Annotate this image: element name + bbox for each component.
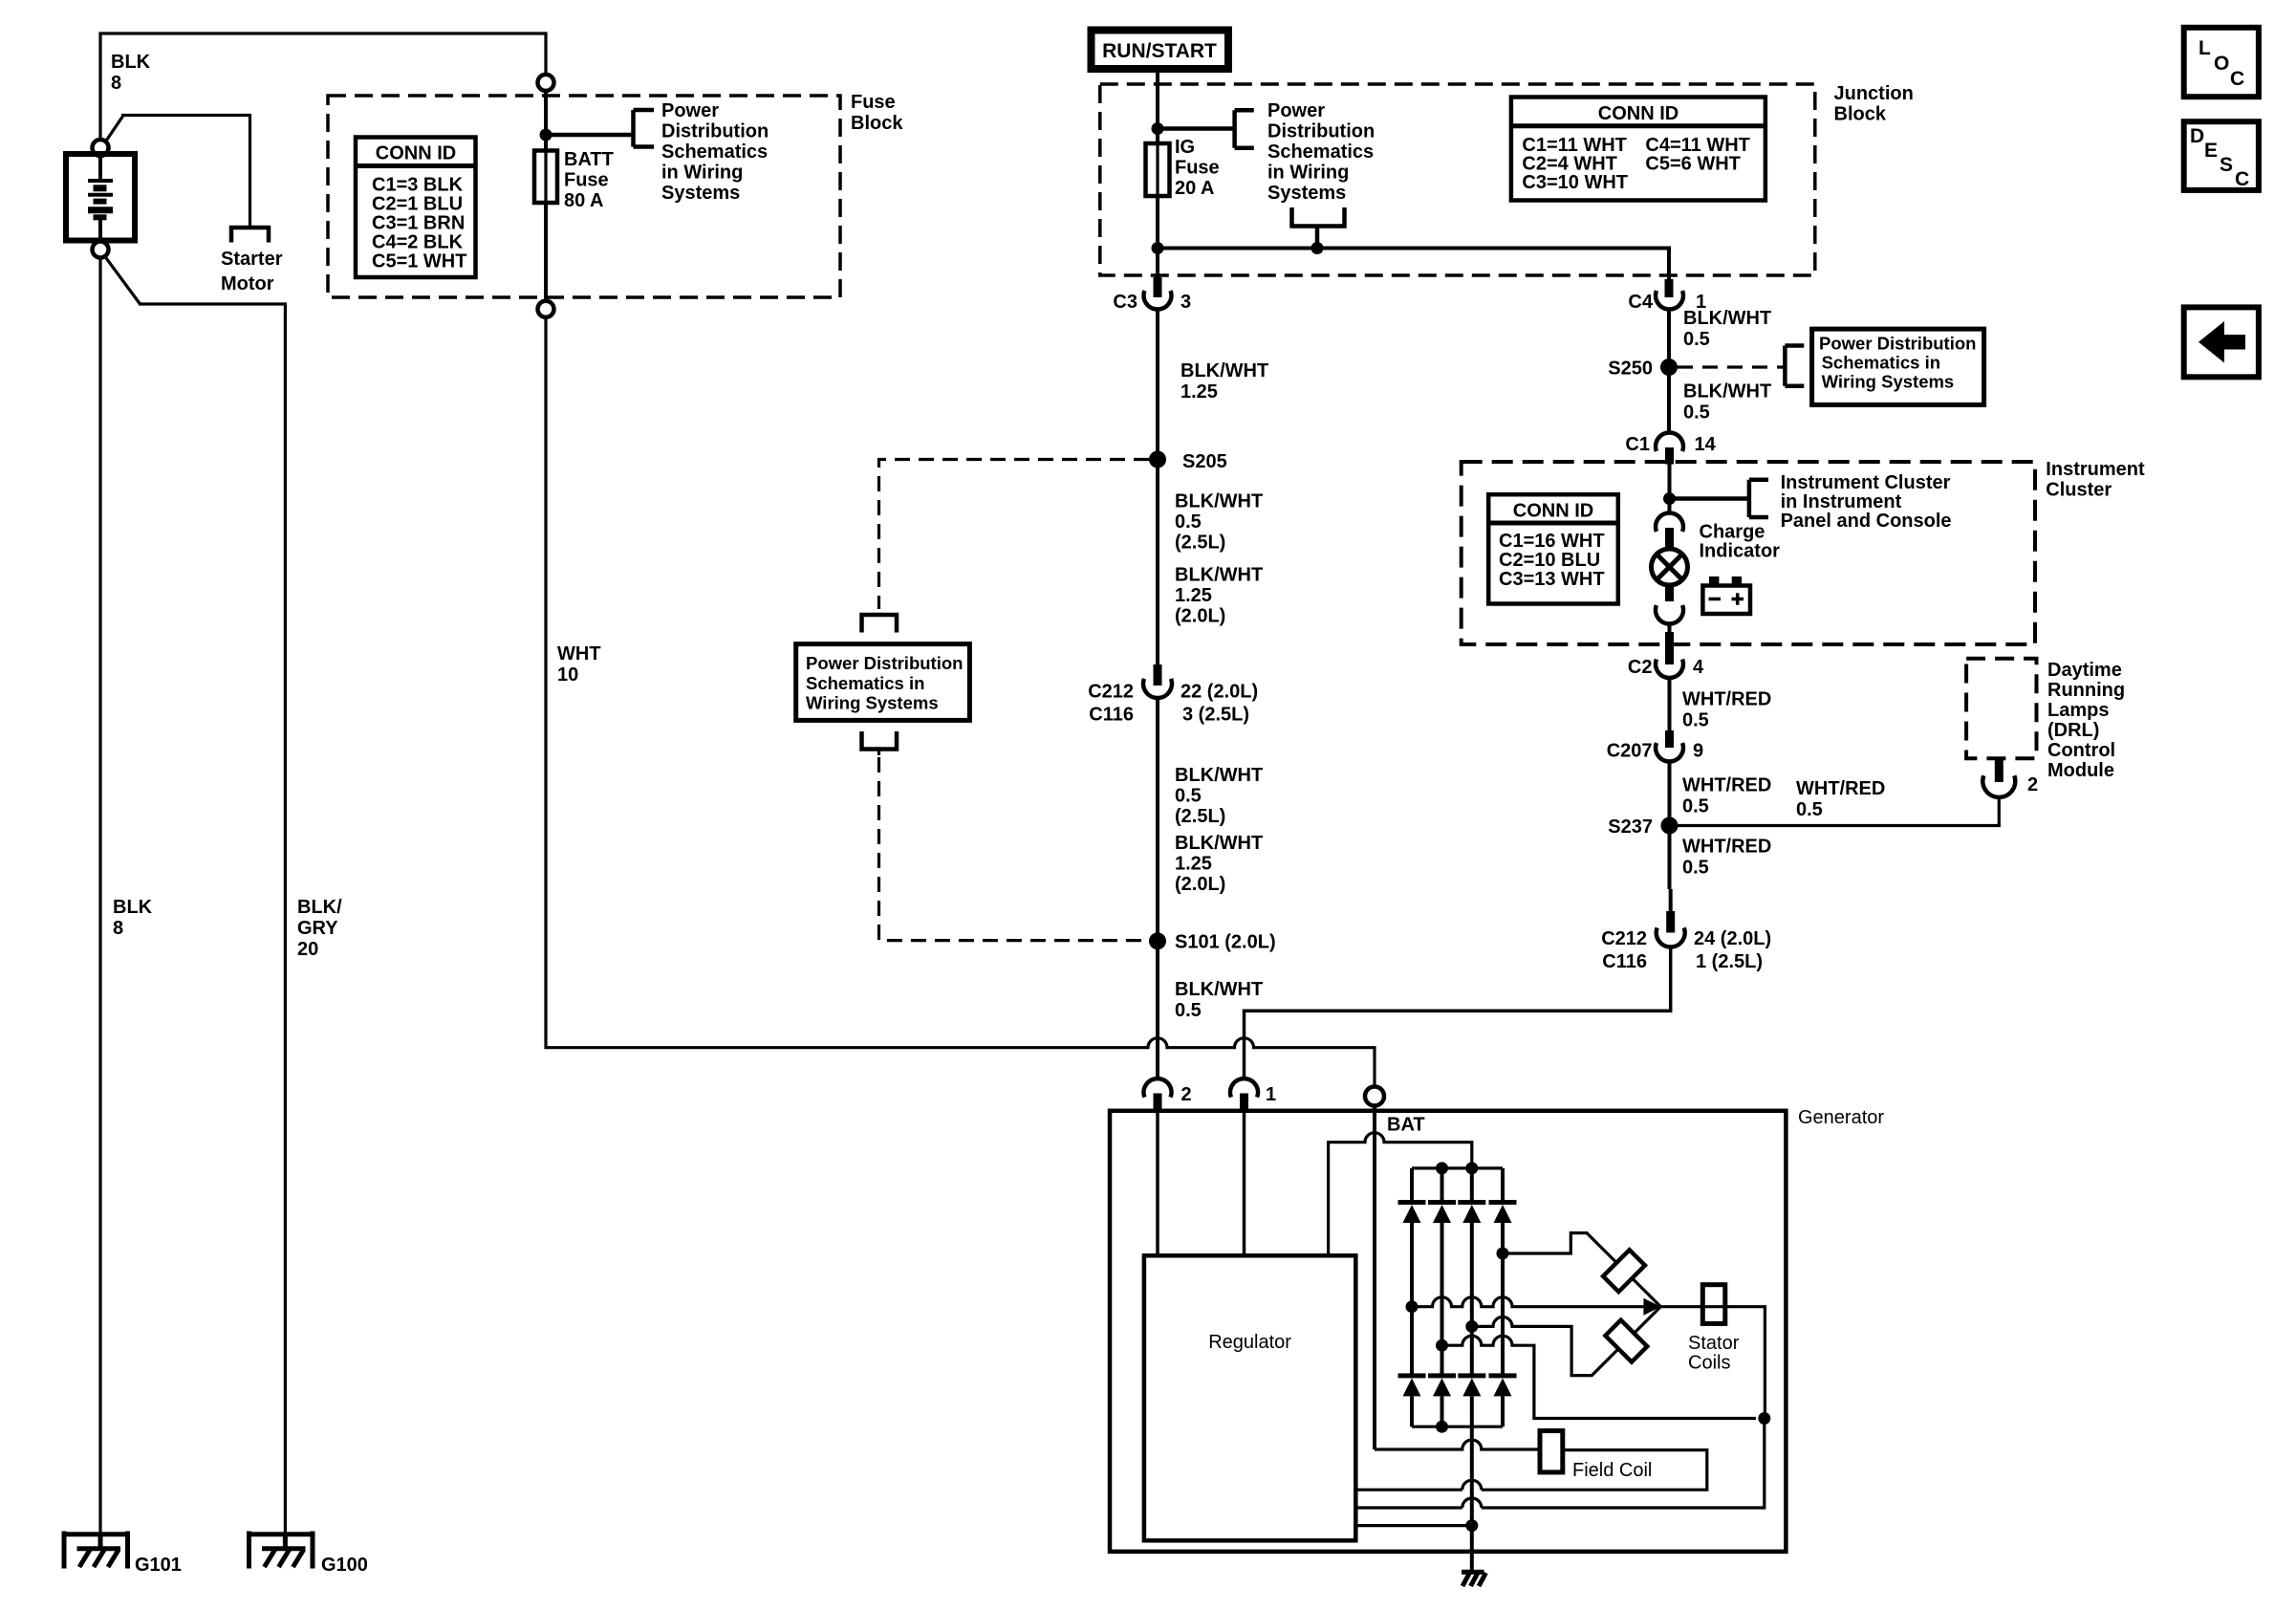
svg-text:Systems: Systems [1267, 183, 1346, 204]
wire: through fuse block [544, 91, 548, 301]
svg-text:C3: C3 [1113, 292, 1137, 313]
field coil loop and return (H2) to regulator with hop over c3 [1355, 1450, 1707, 1491]
svg-text:BLK/WHT: BLK/WHT [1683, 381, 1771, 403]
stator phase A wire (c1 to stator coil) with hops [1412, 1297, 1765, 1419]
LOC box [2184, 28, 2259, 97]
wire: C212 down to generator pin 2 [1156, 699, 1159, 1078]
svg-text:Systems: Systems [661, 183, 740, 204]
svg-text:BLK/WHT: BLK/WHT [1180, 360, 1268, 381]
wire: pin 1 to regulator [1243, 1111, 1246, 1256]
svg-text:Schematics: Schematics [661, 142, 768, 163]
svg-text:Starter: Starter [221, 249, 283, 270]
battery icon next to lamp [1702, 586, 1750, 615]
wire: C207 to S237 [1668, 762, 1672, 890]
wire: stator return down to regulator (H3) [1355, 1419, 1765, 1509]
svg-text:4: 4 [1693, 657, 1704, 678]
label: BLK/WHT 0.5 [1175, 979, 1263, 1021]
svg-text:3: 3 [1180, 292, 1191, 313]
svg-text:S: S [2220, 154, 2233, 176]
node: dot c2 phase C [1436, 1339, 1448, 1352]
svg-text:Wiring Systems: Wiring Systems [806, 693, 939, 713]
svg-text:C1=16 WHT: C1=16 WHT [1499, 531, 1605, 552]
upper winding branch from c4 [1503, 1233, 1660, 1307]
wire: pin 2 to regulator [1156, 1111, 1159, 1256]
svg-text:C1: C1 [1625, 434, 1650, 455]
svg-text:80 A: 80 A [564, 190, 604, 211]
svg-text:Wiring Systems: Wiring Systems [1822, 372, 1955, 392]
wire: RUN/START down through IG fuse [1156, 73, 1159, 279]
svg-text:Motor: Motor [221, 273, 274, 294]
svg-text:0.5: 0.5 [1682, 858, 1709, 879]
wire: WHT 10 long run down and across to generator BAT [546, 317, 1375, 1086]
svg-text:Indicator: Indicator [1700, 541, 1781, 562]
wire + pointer bracket to Power Distribution note [546, 110, 654, 147]
svg-text:22 (2.0L): 22 (2.0L) [1180, 682, 1258, 703]
charge indicator lamp: top connector [1656, 512, 1683, 532]
label: BLK/WHT 1.25 [1180, 360, 1268, 403]
node: stator return dot [1758, 1412, 1770, 1425]
svg-text:C5=6 WHT: C5=6 WHT [1645, 154, 1740, 175]
svg-text:14: 14 [1695, 434, 1717, 455]
wire: C212 down and across to generator pin 1 [1245, 947, 1671, 1078]
svg-text:1.25: 1.25 [1175, 585, 1212, 606]
svg-text:Schematics in: Schematics in [806, 673, 924, 693]
connector C212/C116 pin 24/1 [1669, 889, 1673, 911]
node: splice S237 [1661, 817, 1679, 835]
node: bus junction dot (pointer) [1311, 242, 1324, 254]
rectifier bottom bus [1412, 1426, 1503, 1428]
battery internal plates [88, 156, 113, 239]
node: dot c3 lower branch [1465, 1320, 1478, 1333]
dashed reference: S250 to Power Distribution box [1678, 365, 1785, 368]
stator coil symbol (right) [1702, 1285, 1725, 1324]
svg-text:0.5: 0.5 [1683, 403, 1710, 424]
wire: battery negative down to G101 [98, 258, 101, 1535]
node: dot c3 top bus [1465, 1162, 1478, 1174]
svg-text:BLK/WHT: BLK/WHT [1175, 491, 1263, 512]
starter motor stub symbol [231, 228, 269, 243]
diode D5-D8 (lower row): bars and arrows [1398, 1373, 1517, 1378]
wire: C1 into cluster [1668, 465, 1672, 515]
svg-text:0.5: 0.5 [1175, 1000, 1202, 1021]
RUN/START box [1092, 31, 1229, 70]
svg-text:Generator: Generator [1798, 1107, 1884, 1128]
svg-text:(DRL): (DRL) [2047, 720, 2099, 741]
CONN ID table (junction block) [1511, 98, 1765, 201]
svg-text:2: 2 [1181, 1084, 1192, 1105]
svg-text:S237: S237 [1608, 816, 1653, 838]
svg-text:C116: C116 [1602, 951, 1647, 972]
label: BLK 8 (top) [111, 52, 151, 94]
labels center column (2.5L/2.0L group above C212) [1175, 491, 1263, 627]
svg-text:(2.5L): (2.5L) [1175, 806, 1225, 827]
label: BLK/WHT 0.5 (above S250) [1683, 308, 1771, 350]
svg-text:BLK/WHT: BLK/WHT [1175, 765, 1263, 786]
svg-text:L: L [2199, 37, 2211, 59]
label: Starter Motor [221, 249, 283, 294]
svg-text:10: 10 [557, 664, 578, 686]
svg-text:C5=1 WHT: C5=1 WHT [372, 251, 466, 272]
CONN ID table (instrument cluster) [1488, 494, 1618, 603]
svg-text:Schematics: Schematics [1267, 142, 1374, 163]
svg-text:Power: Power [1267, 100, 1325, 121]
connector C3 pin 3 [1154, 277, 1162, 297]
svg-text:C207: C207 [1607, 741, 1653, 762]
svg-text:1.25: 1.25 [1180, 381, 1218, 403]
connector: generator pin 2 [1144, 1078, 1172, 1098]
svg-text:GRY: GRY [297, 918, 338, 939]
connector: DRL pin 2 [1995, 758, 2004, 782]
svg-text:2: 2 [2027, 774, 2038, 795]
svg-text:Cluster: Cluster [2046, 480, 2112, 501]
regulator ground pin (H4) to c3 [1355, 1524, 1472, 1527]
svg-text:(2.5L): (2.5L) [1175, 533, 1225, 554]
svg-text:C: C [2230, 68, 2244, 90]
svg-text:(2.0L): (2.0L) [1175, 606, 1225, 627]
DESC box [2184, 121, 2259, 190]
svg-text:20: 20 [297, 939, 318, 960]
svg-text:in Wiring: in Wiring [661, 163, 743, 184]
wire: battery positive to starter motor [105, 116, 250, 229]
node: dot c2 top bus [1436, 1162, 1448, 1174]
phase arrow junction [1643, 1298, 1660, 1316]
wire: c3 to generator internal ground [1470, 1426, 1474, 1572]
wire: BAT down to field coil feed [1373, 1106, 1376, 1450]
svg-text:in Instrument: in Instrument [1781, 491, 1902, 512]
node: dot c4 upper branch [1497, 1248, 1509, 1260]
dashed reference: note box down to S101 [879, 757, 1150, 941]
svg-text:Coils: Coils [1688, 1353, 1730, 1374]
labels below C212 [1175, 765, 1263, 895]
fuse F2: IG Fuse 20 A [1146, 143, 1170, 196]
node: dot c1 phase A [1406, 1300, 1419, 1313]
node: junction dot to pointer [540, 129, 552, 142]
wire: C3 down center column to C212 [1156, 311, 1159, 664]
node: ground junction dot [1465, 1519, 1478, 1532]
svg-text:20 A: 20 A [1175, 178, 1215, 199]
node: battery positive terminal circle [93, 140, 109, 156]
rectifier top bus [1412, 1166, 1503, 1169]
wire: junction block internal bus [1158, 249, 1669, 280]
node: BAT terminal circle [1365, 1087, 1384, 1106]
node: battery negative terminal circle [93, 242, 109, 258]
connector C212/C116 pin 22/3 [1154, 664, 1162, 686]
Power Distribution Schematics note box (left) [796, 644, 970, 721]
node: fuse block top connector circle [538, 75, 554, 91]
svg-text:WHT/RED: WHT/RED [1682, 775, 1771, 796]
svg-text:CONN ID: CONN ID [376, 143, 456, 164]
battery B1 box [66, 154, 135, 241]
svg-text:C4: C4 [1628, 292, 1653, 313]
pointer bracket up from bus [1292, 207, 1345, 249]
svg-text:E: E [2204, 140, 2218, 162]
svg-text:0.5: 0.5 [1683, 329, 1710, 350]
node: splice S205 [1149, 451, 1166, 468]
svg-text:C3=10 WHT: C3=10 WHT [1522, 172, 1628, 193]
svg-text:BLK/WHT: BLK/WHT [1175, 833, 1263, 854]
svg-text:RUN/START: RUN/START [1102, 40, 1217, 62]
svg-text:3 (2.5L): 3 (2.5L) [1182, 705, 1249, 726]
svg-text:WHT: WHT [557, 643, 601, 664]
node: splice S101 [1149, 932, 1166, 949]
svg-text:WHT/RED: WHT/RED [1682, 689, 1771, 710]
ground (generator internal) [1462, 1572, 1486, 1586]
CONN ID table (fuse block) [356, 138, 476, 278]
svg-text:1.25: 1.25 [1175, 854, 1212, 875]
node: fuse block bottom connector circle [538, 301, 554, 317]
label: WHT/RED 0.5 below S237 [1682, 837, 1771, 879]
svg-text:IG: IG [1175, 137, 1195, 158]
svg-text:8: 8 [111, 73, 121, 94]
node: bus junction dot (left) [1152, 242, 1164, 254]
wire: C4 down to S250 and C1 [1667, 311, 1671, 431]
wire: battery positive feed top run [100, 33, 546, 140]
svg-text:0.5: 0.5 [1175, 512, 1202, 533]
node: splice S250 [1660, 359, 1678, 376]
wire + pointer bracket to Power Distribution note [1158, 110, 1254, 148]
svg-text:1 (2.5L): 1 (2.5L) [1696, 951, 1763, 972]
svg-text:0.5: 0.5 [1682, 796, 1709, 817]
wire: C2 to C207 [1668, 678, 1672, 730]
junction block dashed box [1100, 84, 1815, 275]
label: BLK 8 (lower left wire) [113, 897, 153, 939]
field coil feed (H1): BAT corner to coil with hop over c3 [1375, 1440, 1540, 1449]
svg-text:Instrument Cluster: Instrument Cluster [1781, 472, 1951, 493]
svg-text:Block: Block [1834, 104, 1887, 125]
node: junction dot to pointer [1152, 122, 1164, 135]
svg-text:O: O [2214, 53, 2229, 75]
svg-text:Module: Module [2047, 760, 2114, 781]
svg-text:Block: Block [851, 113, 903, 134]
svg-text:Running: Running [2047, 680, 2125, 701]
svg-text:Schematics in: Schematics in [1822, 353, 1940, 373]
winding diamond (lower) [1605, 1320, 1647, 1362]
svg-text:BLK: BLK [113, 897, 153, 918]
stator phase C wire (c2 to return) with hops [1442, 1336, 1757, 1418]
svg-text:1: 1 [1266, 1084, 1276, 1105]
ground G101 [64, 1532, 128, 1569]
svg-text:Control: Control [2047, 740, 2115, 761]
rectifier columns (verticals) [1412, 1168, 1503, 1200]
back-arrow box [2184, 307, 2259, 377]
svg-text:BLK/WHT: BLK/WHT [1175, 565, 1263, 586]
fuse block dashed box [328, 96, 840, 297]
svg-text:BLK/: BLK/ [297, 897, 342, 918]
lamp L1: charge indicator [1652, 549, 1688, 585]
svg-text:C4=2 BLK: C4=2 BLK [372, 232, 464, 253]
svg-text:Power: Power [661, 100, 719, 121]
svg-text:9: 9 [1693, 741, 1703, 762]
winding diamond (upper) [1603, 1250, 1645, 1292]
svg-text:C1=3 BLK: C1=3 BLK [372, 175, 464, 196]
label: BLK/WHT 0.5 (below S250) [1683, 381, 1771, 424]
fuse F1: BATT Fuse 80 A [534, 151, 557, 204]
ground G100 [249, 1532, 314, 1569]
label: BLK/GRY 20 [297, 897, 342, 960]
svg-text:0.5: 0.5 [1796, 799, 1823, 820]
svg-text:BLK: BLK [111, 52, 151, 73]
svg-text:Fuse: Fuse [851, 92, 896, 113]
svg-text:BAT: BAT [1387, 1115, 1425, 1136]
svg-text:C2: C2 [1628, 657, 1653, 678]
wire: DRL pin 2 to S237 [1678, 795, 1999, 826]
svg-text:in Wiring: in Wiring [1267, 163, 1349, 184]
instrument cluster dashed box [1462, 462, 2035, 644]
svg-text:Junction: Junction [1834, 83, 1914, 104]
connector C4 pin 1 [1665, 279, 1674, 297]
svg-text:BLK/WHT: BLK/WHT [1683, 308, 1771, 329]
svg-text:C3=13 WHT: C3=13 WHT [1499, 569, 1605, 590]
svg-text:CONN ID: CONN ID [1598, 103, 1679, 124]
svg-text:C116: C116 [1089, 705, 1134, 726]
svg-text:C: C [2235, 168, 2249, 190]
svg-text:(2.0L): (2.0L) [1175, 874, 1225, 895]
svg-text:Distribution: Distribution [661, 121, 769, 142]
Power Distribution Schematics note box (right) [1812, 329, 1984, 404]
svg-text:S101 (2.0L): S101 (2.0L) [1175, 932, 1276, 953]
svg-text:Fuse: Fuse [564, 170, 609, 191]
connector C1 pin 14 [1656, 432, 1683, 451]
connector C2 pin 4 [1656, 660, 1683, 679]
svg-text:Daytime: Daytime [2047, 660, 2122, 681]
wire + pointer bracket to Instrument Cluster note [1670, 480, 1769, 517]
svg-text:8: 8 [113, 918, 123, 939]
connector C207 pin 9 [1665, 730, 1674, 748]
svg-text:Field Coil: Field Coil [1572, 1460, 1652, 1481]
svg-text:Panel and Console: Panel and Console [1781, 511, 1952, 532]
svg-text:Fuse: Fuse [1175, 158, 1220, 179]
generator box [1110, 1111, 1786, 1552]
svg-text:Lamps: Lamps [2047, 700, 2109, 721]
label: Fuse Block [851, 92, 903, 134]
field coil symbol [1540, 1431, 1563, 1472]
svg-text:S205: S205 [1182, 451, 1227, 472]
wire: lamp down across cluster edge [1668, 623, 1672, 633]
lower winding branch from c3 [1472, 1307, 1660, 1376]
svg-text:24 (2.0L): 24 (2.0L) [1694, 928, 1771, 949]
svg-text:G101: G101 [135, 1555, 182, 1576]
svg-text:C212: C212 [1601, 928, 1647, 949]
svg-text:Charge: Charge [1700, 522, 1765, 543]
svg-text:Power Distribution: Power Distribution [1819, 334, 1976, 354]
svg-text:BATT: BATT [564, 149, 614, 170]
svg-text:0.5: 0.5 [1175, 786, 1202, 807]
svg-text:S250: S250 [1608, 359, 1653, 380]
svg-text:G100: G100 [321, 1555, 368, 1576]
svg-text:0.5: 0.5 [1682, 710, 1709, 731]
charge indicator lamp: bottom connector [1665, 584, 1674, 601]
wire: battery negative diagonal to BLK/GRY branch [105, 257, 285, 1535]
svg-text:BLK/WHT: BLK/WHT [1175, 979, 1263, 1000]
connector: generator pin 1 [1230, 1078, 1258, 1098]
svg-text:CONN ID: CONN ID [1513, 501, 1593, 522]
svg-text:C2=10 BLU: C2=10 BLU [1499, 550, 1600, 571]
dashed reference: S205 to Power Distribution box [879, 460, 1150, 610]
wire: regulator top-right pin to rectifier bus (hops BAT wire) [1329, 1133, 1472, 1256]
svg-text:Power Distribution: Power Distribution [806, 653, 963, 673]
svg-text:WHT/RED: WHT/RED [1796, 778, 1885, 799]
svg-text:Regulator: Regulator [1208, 1332, 1291, 1353]
node: junction dot to pointer [1663, 492, 1676, 505]
svg-text:D: D [2190, 125, 2204, 147]
svg-text:C212: C212 [1088, 682, 1134, 703]
DRL control module dashed box [1966, 659, 2036, 759]
svg-text:Stator: Stator [1688, 1333, 1740, 1354]
regulator box [1144, 1255, 1355, 1540]
svg-text:C3=1 BRN: C3=1 BRN [372, 213, 465, 234]
node: dot c2 bottom bus [1436, 1421, 1448, 1433]
svg-text:Instrument: Instrument [2046, 459, 2145, 480]
svg-text:Distribution: Distribution [1267, 121, 1375, 142]
label: WHT 10 [557, 643, 601, 686]
svg-text:C2=1 BLU: C2=1 BLU [372, 194, 463, 215]
svg-text:WHT/RED: WHT/RED [1682, 837, 1771, 858]
diode D1-D4 (upper row): bars and arrows [1398, 1200, 1517, 1205]
